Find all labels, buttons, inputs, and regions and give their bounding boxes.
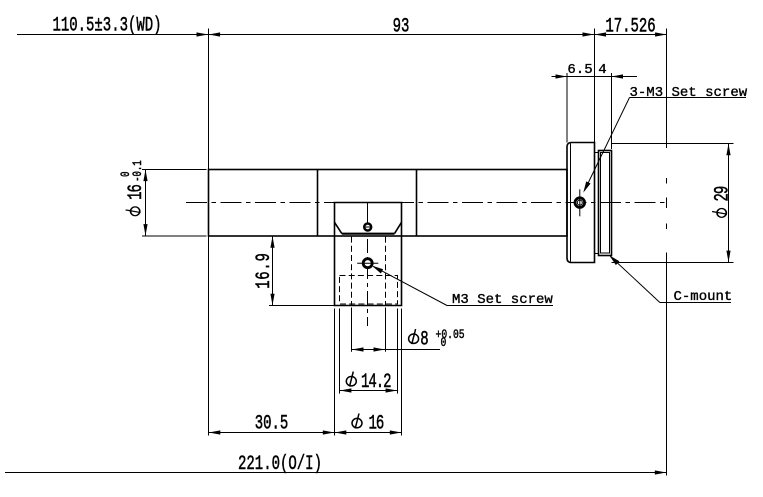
- ext line 4 right: [611, 73, 613, 149]
- clamp screw: [364, 224, 371, 231]
- leader 3-M3: [585, 98, 630, 191]
- extension line front of barrel: [208, 29, 210, 436]
- svg-text:16: 16: [125, 184, 148, 199]
- svg-text:8: 8: [420, 328, 428, 351]
- svg-text:14.2: 14.2: [361, 371, 391, 394]
- clamp bottom thick line: [342, 233, 395, 235]
- svg-text:30.5: 30.5: [255, 412, 289, 435]
- dim 30.5 and phi16 bottom: [334, 309, 336, 436]
- arrow 4 outside right: [612, 74, 624, 78]
- clamp chamfer left: [335, 222, 342, 233]
- barrel joint line 1: [317, 170, 319, 237]
- arrow 17.526 right: [655, 32, 667, 36]
- flange set screw: [575, 198, 585, 208]
- front cylinder top edge: [612, 143, 734, 145]
- flange disc outline: [567, 143, 595, 263]
- dim phi14.2: [339, 309, 341, 394]
- text phi14.2: [346, 372, 356, 387]
- extension line flange face: [594, 29, 596, 143]
- flange set screw crosshair: [579, 189, 581, 216]
- arrow 110.5 right: [197, 32, 209, 36]
- top dimension line row: [17, 34, 667, 36]
- svg-text:110.5±3.3(WD): 110.5±3.3(WD): [52, 14, 161, 37]
- dim 6.5 / 4 row: [552, 76, 638, 78]
- text phi16 tolerance rotated: [120, 160, 148, 216]
- svg-text:0: 0: [120, 171, 134, 177]
- barrel body outline: [209, 170, 568, 237]
- dim phi29: [728, 144, 730, 263]
- image plane vertical line: [666, 29, 668, 149]
- svg-text:29: 29: [711, 186, 734, 201]
- barrel joint line 2: [416, 170, 418, 237]
- arrow 6.5 outside left: [556, 74, 568, 78]
- leader M3: [374, 267, 448, 306]
- foot hidden counterbore phi14.2: [340, 276, 398, 305]
- svg-text:16: 16: [369, 412, 384, 435]
- foot screw cross line: [357, 262, 378, 264]
- arrow 93 right: [583, 32, 595, 36]
- ring connector bottom: [595, 253, 599, 255]
- svg-text:4: 4: [598, 62, 606, 78]
- text phi8: [409, 329, 419, 344]
- c-mount thread ring inner: [601, 153, 610, 254]
- svg-text:221.0(O/I): 221.0(O/I): [238, 453, 322, 476]
- front cylinder bottom edge: [612, 262, 734, 264]
- centerline optical axis: [186, 202, 667, 204]
- foot centerline vertical: [367, 239, 369, 326]
- svg-text:17.526: 17.526: [605, 15, 655, 38]
- dim phi8: [351, 308, 353, 352]
- dim 221.0: [5, 472, 667, 474]
- leader C-mount: [611, 257, 661, 303]
- dim phi16 left: [142, 169, 207, 171]
- foot hidden hole phi8 right: [385, 237, 387, 306]
- arrow 93 left: [209, 32, 221, 36]
- clamp chamfer right: [395, 222, 402, 233]
- dim 16.9: [272, 236, 274, 306]
- text phi16 bottom: [352, 414, 362, 429]
- flange inner edge line: [570, 144, 572, 262]
- ext line 6.5 left: [566, 73, 568, 143]
- svg-text:0: 0: [441, 336, 447, 351]
- clamp center stem: [367, 203, 369, 224]
- svg-text:93: 93: [393, 15, 410, 38]
- clamp block outline: [335, 203, 402, 237]
- svg-text:3-M3 Set screw: 3-M3 Set screw: [630, 85, 748, 101]
- ring connector top: [595, 152, 599, 154]
- foot hidden hole phi8 left: [351, 237, 353, 306]
- svg-text:6.5: 6.5: [567, 62, 592, 78]
- c-mount thread ring outer: [599, 151, 612, 256]
- foot screw: [363, 259, 372, 268]
- svg-text:16.9: 16.9: [253, 252, 276, 288]
- arrow 17.526 left: [595, 32, 607, 36]
- foot outline: [335, 236, 402, 306]
- text phi29 rotated: [711, 186, 734, 217]
